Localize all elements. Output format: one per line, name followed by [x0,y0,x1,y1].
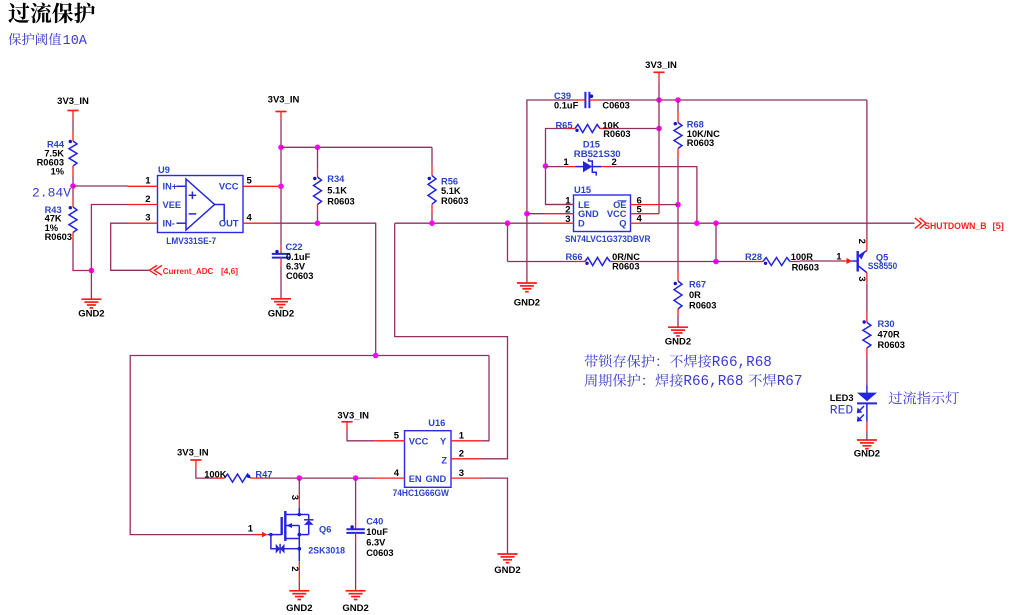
power 3V3_IN [337,411,369,422]
wire C39 left to GND column [575,99,585,101]
node 2.84V [70,183,76,189]
svg-text:R30: R30 [878,319,895,329]
wire R30 to LED3 [866,348,868,357]
svg-text:GND2: GND2 [286,603,312,614]
svg-text:3V3_IN: 3V3_IN [268,95,300,106]
svg-text:0.1uF: 0.1uF [286,252,311,262]
wire Q5 collector to R30 [866,273,868,284]
wire U9 OUT row [273,223,376,355]
pin stubs U16 [374,440,405,442]
resistor R65 10K [555,120,630,139]
subtitle 保护阈值10A [8,33,61,45]
svg-text:SS8550: SS8550 [868,261,897,271]
resistor R67 0R [674,271,717,311]
svg-text:R66: R66 [566,252,583,262]
wire R44 to node 2.84V [72,166,74,177]
junction C40 [353,475,359,481]
svg-text:GND: GND [426,474,447,484]
svg-text:1: 1 [563,157,569,168]
svg-text:1%: 1% [51,167,65,177]
svg-text:GND2: GND2 [514,298,540,309]
svg-text:IN-: IN- [163,219,175,229]
ground GND2 [268,299,294,320]
svg-text:R0603: R0603 [603,129,630,139]
wire R67 to GND [677,309,679,315]
svg-text:3: 3 [856,276,867,281]
note latch protection line2 [585,374,683,387]
svg-text:R0603: R0603 [441,196,468,206]
pin stubs U15 [546,204,574,206]
transistor Q5 SS8550 [836,239,897,282]
capacitor C39 0.1uF [554,91,630,111]
svg-text:Z: Z [441,455,447,465]
svg-text:2: 2 [145,194,150,205]
wire R43 to GND corner [72,233,74,243]
wire Z net [395,223,508,459]
svg-text:3: 3 [145,213,150,224]
svg-text:EN: EN [409,474,422,484]
svg-text:1: 1 [836,252,842,263]
junction rail [373,353,379,359]
wire to R66 [507,223,509,261]
wire base row left [508,261,576,263]
wire C39 right / 3V3 row [589,99,600,101]
svg-text:4: 4 [394,468,400,479]
svg-text:R0603: R0603 [45,232,72,242]
svg-text:4: 4 [247,213,253,224]
wire VEE net U9 pin2 [91,205,127,300]
wire U16 GND to ground [481,478,508,554]
note latch protection line1 [585,354,712,367]
svg-text:3V3_IN: 3V3_IN [645,60,677,71]
junction base row [713,259,719,265]
svg-text:R34: R34 [327,174,345,184]
svg-text:10uF: 10uF [366,527,388,537]
svg-text:C40: C40 [366,516,383,526]
svg-text:IN+: IN+ [163,182,178,192]
power 3V3_IN [57,96,89,110]
svg-text:2: 2 [856,239,867,244]
wire 3V3 to U16 VCC [346,422,348,430]
resistor R43 47K [45,205,77,242]
svg-text:R0603: R0603 [689,301,716,311]
wire 2.84V node to U9 IN+ [73,185,128,187]
svg-text:1: 1 [145,176,151,187]
svg-text:5.1K: 5.1K [327,186,347,196]
svg-text:D: D [578,218,585,228]
svg-text:GND2: GND2 [854,449,880,460]
svg-text:5: 5 [247,176,253,187]
op-amp U9 LMV331SE-7 [145,165,252,246]
svg-text:VCC: VCC [219,182,239,192]
led LED3 RED [830,385,877,421]
svg-text:R67: R67 [777,374,803,390]
svg-text:R0603: R0603 [878,340,905,350]
svg-text:VEE: VEE [163,200,182,210]
wire rail corner to R56 [431,147,433,166]
svg-text:SN74LVC1G373DBVR: SN74LVC1G373DBVR [565,234,651,244]
svg-text:2SK3018: 2SK3018 [308,546,345,556]
wire C40 to GND [355,533,357,542]
svg-text:2.84V: 2.84V [32,186,71,201]
svg-text:1: 1 [248,523,254,534]
wire Q row to SHUTDOWN_B [641,222,915,224]
wire C22 to GND [280,258,282,266]
junction VCC pin5 [278,184,284,190]
svg-text:74HC1G66GW: 74HC1G66GW [393,488,449,498]
svg-text:R0603: R0603 [792,263,819,273]
junction U15 GND pin2 [524,211,530,217]
wire R68 to OE net [677,149,679,159]
resistor R28 100R [745,252,819,273]
junction R66 branch [505,220,511,226]
svg-text:Current_ADC: Current_ADC [163,266,214,276]
wire LED3 to GND [866,422,868,432]
wire node to R43 [72,197,74,208]
svg-text:GND2: GND2 [268,308,294,319]
port SHUTDOWN_B [915,218,1004,231]
ic U15 SN74LVC1G373DBVR [565,185,651,244]
label 过流指示灯 [889,391,959,404]
svg-text:10A: 10A [63,34,88,49]
svg-text:C0603: C0603 [602,101,629,111]
power 3V3_IN [268,95,300,112]
svg-text:47K: 47K [45,214,62,224]
svg-text:RED: RED [830,402,854,417]
resistor R30 470R [863,319,905,350]
wire R34 bottom [317,205,319,215]
svg-text:R67: R67 [689,279,706,289]
svg-text:GND2: GND2 [342,603,368,614]
ground GND2 [342,591,368,614]
junction R66/R28 branch [713,220,719,226]
ground GND2 [854,440,880,460]
wire OE from pin6 [661,204,679,206]
wire D15 cathode to Q net [613,167,697,224]
svg-text:6.3V: 6.3V [366,538,386,548]
resistor R44 7.5K [37,140,77,177]
diode D15 RB521S30 [546,140,621,176]
wire EN row [261,477,375,479]
junction VEE/GND node [89,268,95,274]
wire R56 bottom [431,204,433,214]
svg-text:3V3_IN: 3V3_IN [337,411,369,422]
wire 3V3_IN to R44 [72,111,74,120]
svg-text:GND2: GND2 [78,309,104,320]
svg-text:0R: 0R [689,290,701,300]
svg-text:SHUTDOWN_B: SHUTDOWN_B [924,221,987,231]
wire EN to Q6 drain [298,478,300,494]
svg-text:R0603: R0603 [687,138,714,148]
svg-text:GND2: GND2 [494,565,520,576]
svg-text:Q6: Q6 [319,525,331,535]
power 3V3_IN [177,448,209,461]
ground GND2 [78,299,104,320]
svg-text:[4,6]: [4,6] [221,266,238,276]
wire R28 to Q5 base [800,260,841,262]
svg-text:LED3: LED3 [830,393,854,403]
junction R34 top [315,145,321,151]
junction VCC column [656,97,662,103]
svg-text:LMV331SE-7: LMV331SE-7 [166,236,216,246]
title 过流保护 [8,3,95,24]
wire rail to U16 Y [481,356,489,441]
svg-text:3: 3 [459,468,464,479]
junction D15 anode [543,163,549,169]
junction rail [278,145,284,151]
svg-text:6.3V: 6.3V [286,261,306,271]
svg-text:3: 3 [289,495,300,500]
wire 3V3 down to C22 [280,112,282,121]
ground GND2 [665,327,691,348]
svg-text:5.1K: 5.1K [441,186,461,196]
transistor Q6 2SK3018 [248,495,345,572]
wire 3V3 rail [281,146,432,148]
svg-text:3V3_IN: 3V3_IN [57,96,89,107]
resistor R47 100K [204,470,272,483]
svg-text:VCC: VCC [409,437,429,447]
junction Q6 drain [297,475,303,481]
junction R68 top [675,97,681,103]
svg-text:R66,R68: R66,R68 [712,355,772,371]
wire R65 to 3V3 column [610,128,659,130]
wire pin2 to GND column [527,213,544,215]
svg-text:R66,R68: R66,R68 [683,374,743,390]
capacitor C40 10uF [346,516,393,558]
wire D net row [395,222,544,224]
resistor R68 10K/NC [674,120,721,149]
svg-text:OUT: OUT [219,219,239,229]
svg-text:Y: Y [440,437,447,447]
svg-text:R56: R56 [441,177,458,187]
svg-text:C22: C22 [286,242,303,252]
wire EN to C40 [355,478,357,520]
wire R68 top stub [677,100,679,112]
capacitor C22 0.1uF [272,242,314,281]
svg-text:C0603: C0603 [366,548,393,558]
wire 3V3 to R47 [195,460,197,469]
wire LE net [546,129,574,205]
svg-text:R0603: R0603 [612,261,639,271]
wire 3V3 to row [658,72,660,81]
ic U16 74HC1G66GW [393,418,465,498]
ground GND2 [286,591,312,614]
svg-text:470R: 470R [878,330,901,340]
wire Q6 source to GND [298,561,300,581]
svg-text:3V3_IN: 3V3_IN [177,448,209,459]
junction D15 net [694,220,700,226]
resistor R66 0R/NC [566,252,641,271]
svg-text:Q: Q [619,218,626,228]
svg-text:[5]: [5] [993,221,1004,231]
svg-text:GND2: GND2 [665,337,691,348]
svg-text:0.1uF: 0.1uF [554,101,579,111]
svg-text:R65: R65 [555,120,572,130]
pin stubs U9 [128,185,158,187]
svg-text:U15: U15 [574,185,591,195]
wire IN- to Current_ADC port [111,223,149,270]
svg-text:C0603: C0603 [286,271,313,281]
svg-text:2: 2 [459,449,464,460]
svg-text:R0603: R0603 [327,196,354,206]
resistor R56 5.1K [428,176,469,206]
port Current_ADC [149,265,238,275]
junction R56 bottom [429,220,435,226]
wire VCC column down [658,100,660,214]
junction R65/3V3 [656,126,662,132]
svg-text:U9: U9 [158,165,170,175]
resistor R34 5.1K [313,174,355,206]
svg-text:1: 1 [459,430,465,441]
wire branch down [715,223,717,261]
wire R66 to junction [620,261,753,263]
junction R34 bottom [315,220,321,226]
ground GND2 [514,283,540,309]
svg-text:100K: 100K [204,470,227,480]
power 3V3_IN [645,60,677,72]
svg-text:U16: U16 [428,418,445,428]
wire comparator rail to U16/Q6 [130,356,489,535]
ground GND2 [494,554,520,576]
svg-text:2: 2 [289,566,300,571]
svg-text:R28: R28 [745,252,762,262]
svg-text:5: 5 [394,430,400,441]
junction OE [675,202,681,208]
wire R34 top [317,147,319,167]
wire 3V3 to Q5 emitter [866,100,868,238]
